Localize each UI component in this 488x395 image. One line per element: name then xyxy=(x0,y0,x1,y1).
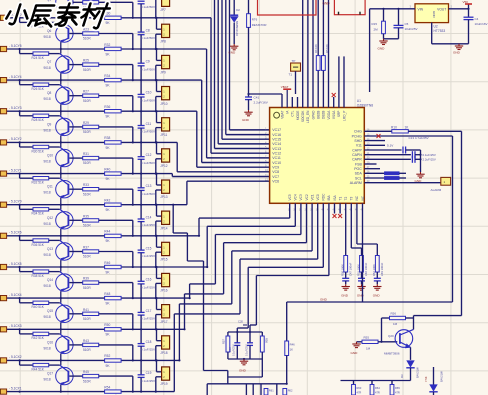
svg-text:Q8: Q8 xyxy=(47,91,51,95)
resistor R44 9K xyxy=(105,234,122,237)
wire VOUT xyxy=(449,5,470,10)
wire rail bottom xyxy=(228,358,262,360)
svg-text:V50: V50 xyxy=(463,0,469,4)
wire net 5.1CY5 xyxy=(7,48,207,50)
svg-text:510R: 510R xyxy=(83,348,91,352)
wire to Q20 xyxy=(414,315,462,317)
connector JP10 xyxy=(155,79,170,112)
svg-text:R63: R63 xyxy=(357,386,362,390)
svg-text:VC13: VC13 xyxy=(272,147,281,151)
svg-text:MODE: MODE xyxy=(296,111,300,121)
resistor R38 9K xyxy=(105,141,122,144)
svg-text:0.1uF/50V: 0.1uF/50V xyxy=(141,130,156,134)
svg-text:ALARM: ALARM xyxy=(431,188,442,192)
svg-text:C9: C9 xyxy=(146,60,150,64)
svg-text:R46: R46 xyxy=(104,261,110,265)
connector JP16 xyxy=(155,266,170,299)
capacitor C15 xyxy=(138,236,156,267)
svg-text:VC10: VC10 xyxy=(272,161,281,165)
svg-text:R32: R32 xyxy=(104,43,110,47)
resistor R48 9K xyxy=(105,296,122,299)
wire net 5.1CY1 to U1 xyxy=(172,174,269,177)
wire net 5.1CX1 xyxy=(7,391,175,393)
transistor Q16 xyxy=(20,329,74,360)
resistor RT6 xyxy=(247,0,267,97)
wire bus top xyxy=(312,0,314,108)
wire VIN xyxy=(370,5,415,93)
svg-text:Q16: Q16 xyxy=(47,340,53,344)
wire v-right outer xyxy=(461,131,463,315)
svg-text:R44 51K: R44 51K xyxy=(32,367,45,371)
svg-text:T1: T1 xyxy=(338,197,342,201)
svg-text:R37: R37 xyxy=(83,246,89,250)
no-connect mark xyxy=(332,93,336,108)
svg-text:Q7: Q7 xyxy=(47,60,51,64)
svg-text:T2: T2 xyxy=(344,197,348,201)
svg-text:LRD_P: LRD_P xyxy=(342,111,346,121)
wire VC3 staircase xyxy=(189,203,301,299)
svg-text:Q10: Q10 xyxy=(47,154,53,158)
ground xyxy=(416,172,424,178)
svg-text:GND: GND xyxy=(228,50,236,54)
svg-text:FSB: FSB xyxy=(355,162,362,166)
wire Q20 bus xyxy=(341,380,411,382)
svg-text:VC17: VC17 xyxy=(272,128,281,132)
svg-text:510R: 510R xyxy=(83,224,91,228)
wire pin stub xyxy=(291,97,293,108)
capacitor C4 xyxy=(464,9,488,44)
svg-text:9018: 9018 xyxy=(44,284,51,288)
svg-text:R56: R56 xyxy=(391,312,397,316)
resistor R30 9K xyxy=(105,16,122,19)
resistor R45 510R xyxy=(69,370,133,392)
svg-text:R40: R40 xyxy=(104,167,110,171)
svg-text:- 5.1CX4: - 5.1CX4 xyxy=(9,293,22,297)
svg-text:5.1V: 5.1V xyxy=(387,144,394,148)
wire net 5.1CY0 xyxy=(7,204,187,206)
wire net 5.1CY6 xyxy=(7,17,212,19)
svg-text:RT6: RT6 xyxy=(252,18,258,22)
svg-text:VC12: VC12 xyxy=(272,152,281,156)
connector pad P13 xyxy=(0,389,7,394)
capacitor C5 xyxy=(394,8,418,39)
U1 left pin names xyxy=(265,126,281,183)
resistor R56 1M xyxy=(382,312,414,342)
component outline (cut) xyxy=(334,0,365,15)
svg-text:510R: 510R xyxy=(83,99,91,103)
svg-text:C47 100nF: C47 100nF xyxy=(348,262,352,276)
svg-text:JP17: JP17 xyxy=(160,320,167,324)
svg-text:C4: C4 xyxy=(475,17,479,21)
wire net 5.1CY3 to U1 xyxy=(197,111,270,167)
svg-text:C14: C14 xyxy=(146,215,152,219)
resistor R36 9K xyxy=(105,110,122,113)
svg-text:0.1uF/25V: 0.1uF/25V xyxy=(423,153,436,157)
net label 5.1V xyxy=(364,144,394,148)
svg-text:510R: 510R xyxy=(83,379,91,383)
svg-text:C17: C17 xyxy=(146,309,152,313)
svg-text:CAPR: CAPR xyxy=(352,158,362,162)
svg-text:VC9: VC9 xyxy=(272,166,279,170)
svg-text:- 5.1CY0: - 5.1CY0 xyxy=(9,200,22,204)
wire bus to U1 left pins xyxy=(226,0,270,135)
wire VC0 staircase xyxy=(174,203,317,391)
svg-text:R36: R36 xyxy=(104,105,110,109)
svg-text:GND: GND xyxy=(432,11,436,19)
watermark text xyxy=(5,4,110,29)
connector pad P2 xyxy=(0,46,7,51)
svg-text:SDA: SDA xyxy=(355,172,363,176)
resistor R46 1K xyxy=(285,302,295,385)
svg-text:JP8: JP8 xyxy=(160,40,166,44)
wire net 5.1CY3 xyxy=(7,110,197,112)
svg-text:DB2B: DB2B xyxy=(322,111,326,119)
svg-text:R30 51K: R30 51K xyxy=(32,149,45,153)
svg-text:0.1uF/25V: 0.1uF/25V xyxy=(141,379,156,383)
svg-text:R65: R65 xyxy=(395,386,400,390)
power port V50 xyxy=(463,0,473,9)
U1 top pin names xyxy=(280,110,346,123)
resistor R10 1K xyxy=(364,125,461,133)
svg-text:510R: 510R xyxy=(83,130,91,134)
wire cap ground xyxy=(419,150,421,172)
svg-text:9018: 9018 xyxy=(44,222,51,226)
svg-text:2M: 2M xyxy=(374,28,379,32)
svg-text:10uF/25V: 10uF/25V xyxy=(405,27,418,31)
capacitor C17 xyxy=(138,298,156,329)
svg-text:POC: POC xyxy=(354,167,362,171)
svg-text:VC1: VC1 xyxy=(310,194,314,200)
wire net 5.1CY6 to U1 xyxy=(211,18,270,153)
svg-text:- 5.1CX3: - 5.1CX3 xyxy=(9,324,22,328)
svg-text:ISA: ISA xyxy=(333,194,337,200)
svg-text:R43: R43 xyxy=(83,339,89,343)
svg-text:C19: C19 xyxy=(146,371,152,375)
svg-text:SRP: SRP xyxy=(337,111,341,118)
svg-text:Q9: Q9 xyxy=(47,122,51,126)
capacitor C15 xyxy=(364,156,436,163)
wire bus to U1 left pins xyxy=(222,0,270,139)
svg-text:7.5K: 7.5K xyxy=(424,376,428,382)
connector pad P11 xyxy=(0,327,7,332)
diode D2 xyxy=(230,0,240,44)
svg-text:- 5.1CY2: - 5.1CY2 xyxy=(9,137,22,141)
power port VBAT xyxy=(281,85,291,108)
svg-text:LED_EN: LED_EN xyxy=(306,110,310,123)
resistor R34 9K xyxy=(105,78,122,81)
svg-text:0.1uF/25V: 0.1uF/25V xyxy=(233,344,236,356)
svg-text:D2: D2 xyxy=(236,8,240,12)
svg-text:9018: 9018 xyxy=(44,378,51,382)
svg-text:- 5.1CY5: - 5.1CY5 xyxy=(9,44,22,48)
svg-text:GND: GND xyxy=(453,51,461,55)
svg-text:JP15: JP15 xyxy=(160,258,167,262)
svg-text:T3: T3 xyxy=(350,197,354,201)
svg-text:R26 51K: R26 51K xyxy=(32,87,45,91)
svg-text:C48 100nF: C48 100nF xyxy=(364,262,368,276)
svg-text:NC: NC xyxy=(355,195,359,200)
svg-text:Q13: Q13 xyxy=(47,247,53,251)
svg-text:D3: D3 xyxy=(400,374,404,378)
svg-text:SOCOK: SOCOK xyxy=(301,110,305,122)
connector JP8 xyxy=(155,17,170,50)
resistor R40 9K xyxy=(105,172,122,175)
svg-text:HT7533: HT7533 xyxy=(434,29,446,33)
no-connect mark xyxy=(338,203,342,218)
resistor R55 1M xyxy=(357,335,398,350)
wire bottom bus xyxy=(172,204,287,395)
svg-text:U2: U2 xyxy=(434,25,438,29)
svg-text:0.1uF/25V: 0.1uF/25V xyxy=(141,348,156,352)
wire net 5.1CY4 to U1 xyxy=(202,80,270,162)
svg-text:C20: C20 xyxy=(238,320,243,324)
svg-text:VC4: VC4 xyxy=(294,194,298,200)
svg-text:Q12: Q12 xyxy=(47,216,53,220)
resistor R29 510R xyxy=(69,121,133,142)
wire net 5.1CX6 xyxy=(7,235,200,237)
resistor R35 510R xyxy=(69,214,133,236)
capacitor C20 xyxy=(238,320,247,326)
wire net 5.1CY2 to U1 xyxy=(177,142,269,171)
svg-text:- 5.1CX1: - 5.1CX1 xyxy=(9,386,22,390)
resistor R9 xyxy=(364,176,406,179)
connector JP17 xyxy=(155,297,170,330)
transistor Q8 xyxy=(20,80,74,111)
capacitor C11 xyxy=(138,111,156,142)
svg-text:GPAD: GPAD xyxy=(311,110,315,119)
capacitor C13 xyxy=(364,136,428,154)
svg-text:R38: R38 xyxy=(104,136,110,140)
svg-text:R38 51K: R38 51K xyxy=(32,274,45,278)
wire bus to U1 left pins xyxy=(218,0,269,144)
svg-text:JP16: JP16 xyxy=(160,289,167,293)
svg-text:R40 51K: R40 51K xyxy=(32,305,45,309)
svg-text:Q20: Q20 xyxy=(388,334,394,338)
connector pad P3 xyxy=(0,78,7,83)
svg-text:0.1uF/50V: 0.1uF/50V xyxy=(141,5,156,9)
svg-text:R42 51K: R42 51K xyxy=(32,336,45,340)
transistor Q7 xyxy=(20,49,74,80)
svg-text:0.1uF/50V: 0.1uF/50V xyxy=(141,36,156,40)
svg-text:GND: GND xyxy=(323,2,331,6)
resistor R8 xyxy=(364,172,406,175)
svg-text:47R: 47R xyxy=(395,391,400,395)
svg-text:9018: 9018 xyxy=(44,66,51,70)
transistor Q20 xyxy=(384,318,414,360)
svg-text:47R: 47R xyxy=(375,391,380,395)
wire VC-2 staircase xyxy=(250,203,329,332)
U1 bottom pin names xyxy=(288,193,365,212)
svg-text:GND: GND xyxy=(341,294,349,298)
svg-text:10uF/16V: 10uF/16V xyxy=(475,22,488,26)
wire U2 ground xyxy=(432,23,469,44)
svg-text:C12: C12 xyxy=(146,153,152,157)
wire pin stub xyxy=(343,56,345,107)
capacitor C7 xyxy=(138,1,156,18)
capacitor C22 xyxy=(245,332,253,359)
resistor R62 xyxy=(283,389,293,395)
pin-1 marker xyxy=(274,112,280,118)
svg-text:R4 10K: R4 10K xyxy=(314,44,318,53)
wire VC2 staircase xyxy=(183,203,306,330)
svg-text:ALARM: ALARM xyxy=(350,181,362,185)
svg-text:VIN: VIN xyxy=(418,8,424,12)
resistor R41 510R xyxy=(69,308,133,330)
connector pad P8 xyxy=(0,233,7,238)
svg-text:R33: R33 xyxy=(83,183,89,187)
wire bus top xyxy=(302,0,304,108)
wire POC xyxy=(364,168,380,170)
svg-text:9018: 9018 xyxy=(44,315,51,319)
svg-text:C8: C8 xyxy=(146,28,150,32)
svg-text:VC7: VC7 xyxy=(272,175,279,179)
wire bus top xyxy=(317,0,319,108)
svg-text:R25: R25 xyxy=(83,59,89,63)
svg-text:C13 4.7uF/25V: C13 4.7uF/25V xyxy=(409,136,429,140)
wire VC1 staircase xyxy=(178,203,312,361)
svg-text:JP7: JP7 xyxy=(160,8,166,12)
connector pad P10 xyxy=(0,296,7,301)
svg-text:9018: 9018 xyxy=(44,128,51,132)
svg-text:C11: C11 xyxy=(146,122,152,126)
svg-text:R44: R44 xyxy=(104,230,110,234)
resistor R31 510R xyxy=(69,152,133,174)
svg-text:- 5.1CX5: - 5.1CX5 xyxy=(9,262,22,266)
resistor R57 10K xyxy=(226,336,230,352)
wire VC4 staircase xyxy=(206,203,295,268)
svg-text:VC8: VC8 xyxy=(272,170,279,174)
connector JP7 (cut) xyxy=(155,0,170,19)
wire pin stub xyxy=(297,97,299,108)
connector JP15 xyxy=(155,235,170,268)
svg-text:R29: R29 xyxy=(83,121,89,125)
diode D4 xyxy=(424,367,444,395)
svg-text:0.1uF/50V: 0.1uF/50V xyxy=(141,192,156,196)
capacitor C12 xyxy=(138,142,156,173)
connector pad P7 xyxy=(0,202,7,207)
transistor Q5 xyxy=(56,0,73,18)
ground xyxy=(379,39,387,45)
svg-text:JP10: JP10 xyxy=(160,102,167,106)
ground xyxy=(455,44,463,50)
svg-text:9018: 9018 xyxy=(44,253,51,257)
svg-text:0.1uF/50V: 0.1uF/50V xyxy=(141,99,156,103)
svg-text:R62: R62 xyxy=(288,389,293,393)
svg-text:0.1uF/25V: 0.1uF/25V xyxy=(141,317,156,321)
wire VBAT rail xyxy=(247,93,282,108)
transistor Q10 xyxy=(20,142,74,173)
svg-text:1M: 1M xyxy=(366,347,371,351)
svg-text:MMBD4148: MMBD4148 xyxy=(235,21,239,36)
ground xyxy=(373,284,381,290)
wire bus top xyxy=(322,0,324,108)
transistor Q17 xyxy=(20,360,74,391)
resistor R54 9K xyxy=(105,390,122,393)
svg-text:R39: R39 xyxy=(83,277,89,281)
svg-text:Q15: Q15 xyxy=(47,309,53,313)
transistor Q9 xyxy=(20,111,74,142)
svg-text:510R: 510R xyxy=(83,68,91,72)
capacitor C8 xyxy=(138,18,156,49)
svg-text:GND: GND xyxy=(357,294,365,298)
ground xyxy=(240,359,248,365)
svg-text:VC16: VC16 xyxy=(272,133,281,137)
wire bus top xyxy=(328,0,330,108)
svg-text:510R: 510R xyxy=(83,255,91,259)
resistor R33 510R xyxy=(69,183,133,205)
svg-text:NC: NC xyxy=(361,195,365,200)
svg-text:R52: R52 xyxy=(104,354,110,358)
svg-text:GND: GND xyxy=(242,118,250,122)
svg-text:VBAT: VBAT xyxy=(280,111,284,119)
resistor R4 10K xyxy=(316,56,320,71)
svg-text:BAV21W: BAV21W xyxy=(440,371,444,382)
svg-text:VC5: VC5 xyxy=(288,194,292,200)
svg-text:Q11: Q11 xyxy=(47,185,53,189)
svg-text:R28 51K: R28 51K xyxy=(32,118,45,122)
svg-text:10K: 10K xyxy=(228,347,232,352)
svg-text:R5 10K: R5 10K xyxy=(325,44,329,53)
capacitor C10 xyxy=(138,80,156,111)
svg-text:C18: C18 xyxy=(146,340,152,344)
resistor R61 xyxy=(264,389,274,395)
wire SHD xyxy=(364,140,385,142)
svg-text:C16: C16 xyxy=(146,278,152,282)
wire GND net xyxy=(287,298,453,302)
resistor R15 2M xyxy=(372,9,399,39)
svg-text:0.1uF/25V: 0.1uF/25V xyxy=(141,285,156,289)
svg-text:1K: 1K xyxy=(290,348,294,352)
wire net 5.1CY4 xyxy=(7,79,202,81)
svg-text:- 5.1CY1: - 5.1CY1 xyxy=(9,168,22,172)
svg-text:R54: R54 xyxy=(104,385,110,389)
svg-text:C10: C10 xyxy=(146,91,152,95)
svg-text:C5: C5 xyxy=(405,22,409,26)
svg-text:RESISTOR: RESISTOR xyxy=(252,23,267,27)
test point TP xyxy=(289,59,301,94)
svg-text:510R: 510R xyxy=(83,192,91,196)
svg-text:R50: R50 xyxy=(104,323,110,327)
svg-text:CTL: CTL xyxy=(291,110,295,116)
resistor R27 510R xyxy=(69,90,133,112)
transistor Q6 xyxy=(20,18,74,49)
resistor R39 510R xyxy=(69,277,133,299)
svg-text:510R: 510R xyxy=(83,317,91,321)
wire net 5.1CY2 xyxy=(7,141,178,143)
svg-text:C49 100nF: C49 100nF xyxy=(380,262,384,276)
svg-text:- 5.1CX2: - 5.1CX2 xyxy=(9,355,22,359)
svg-text:VC2: VC2 xyxy=(305,194,309,200)
svg-text:R32 51K: R32 51K xyxy=(32,181,45,185)
svg-text:- 5.1CX6: - 5.1CX6 xyxy=(9,231,22,235)
svg-text:9018: 9018 xyxy=(44,97,51,101)
svg-text:OZ890TN8: OZ890TN8 xyxy=(357,103,373,107)
resistor R64 xyxy=(370,381,380,395)
resistor R50 9K xyxy=(105,328,122,331)
svg-text:R34 51K: R34 51K xyxy=(32,212,45,216)
svg-text:CHG: CHG xyxy=(354,130,362,134)
svg-text:R64: R64 xyxy=(375,386,380,390)
svg-text:R24 51K: R24 51K xyxy=(32,56,45,60)
svg-text:V11: V11 xyxy=(356,144,362,148)
resistor R52 / capacitor C49 xyxy=(357,203,384,284)
svg-text:0.1uF/25V: 0.1uF/25V xyxy=(141,254,156,258)
svg-text:GND: GND xyxy=(378,47,386,51)
svg-text:R48: R48 xyxy=(104,292,110,296)
svg-text:R45: R45 xyxy=(83,370,89,374)
connector JP19 xyxy=(155,359,170,392)
capacitor C14 xyxy=(364,151,436,158)
